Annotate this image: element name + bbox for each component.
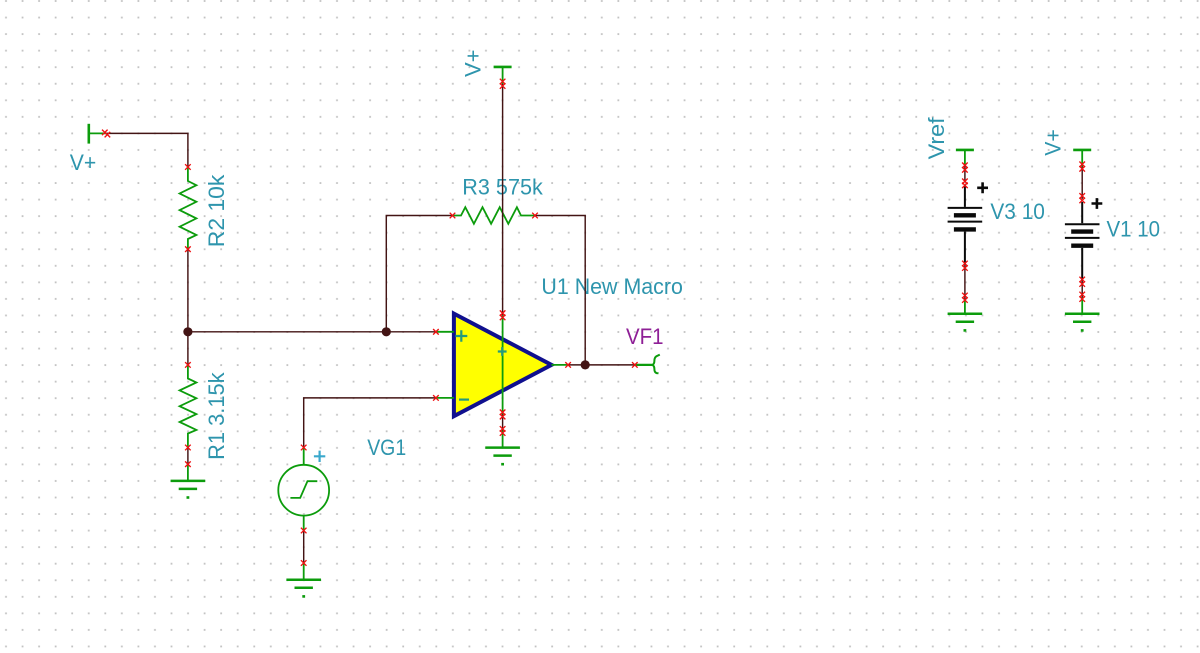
svg-text:V+: V+ bbox=[1040, 129, 1065, 156]
terminal V+ above op-amp bbox=[494, 67, 512, 84]
svg-text:V+: V+ bbox=[70, 150, 97, 175]
wire R2 to node bbox=[187, 249, 189, 332]
svg-text:R2 10k: R2 10k bbox=[204, 174, 229, 248]
op-amp minus input mark bbox=[459, 399, 469, 401]
svg-text:V1 10: V1 10 bbox=[1107, 217, 1161, 242]
op-amp U1 bbox=[454, 314, 552, 417]
terminal V+ top-left bbox=[89, 124, 106, 144]
op-amp plus input mark bbox=[455, 330, 467, 342]
svg-text:VF1: VF1 bbox=[626, 324, 664, 349]
wire VG1 to op-amp minus input bbox=[304, 398, 436, 448]
wire V3 top bbox=[964, 165, 966, 182]
svg-text:Vref: Vref bbox=[924, 116, 949, 159]
wire node up to R3 left bbox=[386, 216, 452, 332]
wire node row to op-amp plus input bbox=[188, 331, 436, 333]
wire VG1 bottom to ground bbox=[303, 531, 305, 564]
wire node down to R1 bbox=[187, 332, 189, 365]
terminal V+ right bbox=[1073, 150, 1091, 314]
wire V3 bottom bbox=[964, 264, 966, 299]
resistor R2 bbox=[180, 167, 197, 249]
resistor R1 bbox=[180, 365, 197, 448]
VF1 output hook terminal bbox=[635, 355, 660, 374]
terminal Vref bbox=[956, 150, 974, 314]
resistor R3 bbox=[453, 207, 536, 224]
wire V1 bottom bbox=[1081, 281, 1083, 298]
battery V3 bbox=[948, 182, 988, 264]
svg-text:VG1: VG1 bbox=[367, 435, 406, 460]
battery V1 bbox=[1065, 198, 1102, 280]
red x marks bbox=[102, 79, 1085, 566]
wire V+ terminal down to op-amp power bbox=[502, 84, 504, 315]
ground below R1 bbox=[187, 464, 189, 481]
svg-text:R1 3.15k: R1 3.15k bbox=[204, 371, 229, 459]
op-amp power plus mark bbox=[498, 347, 507, 356]
wire R3 right down to output bbox=[535, 216, 585, 365]
node junction feedback bbox=[382, 327, 391, 336]
VG1 plus mark bbox=[314, 451, 325, 462]
node junction output bbox=[581, 360, 590, 369]
wire op-amp power bottom to ground bbox=[502, 415, 504, 431]
op-amp pins bbox=[436, 315, 568, 414]
wire terminal to R2 bbox=[106, 133, 188, 167]
ground below op-amp bbox=[502, 431, 504, 448]
wire output to VF1 bbox=[568, 364, 635, 366]
node junction R1 R2 bbox=[183, 327, 192, 336]
wire V1 top bbox=[1081, 167, 1083, 199]
svg-text:V3 10: V3 10 bbox=[990, 199, 1045, 224]
svg-text:V+: V+ bbox=[460, 50, 485, 78]
svg-text:U1 New Macro: U1 New Macro bbox=[541, 274, 683, 299]
VG1 source bbox=[278, 448, 329, 531]
ground below VG1 bbox=[303, 563, 305, 580]
wire R1 bottom to ground pin bbox=[187, 448, 189, 465]
